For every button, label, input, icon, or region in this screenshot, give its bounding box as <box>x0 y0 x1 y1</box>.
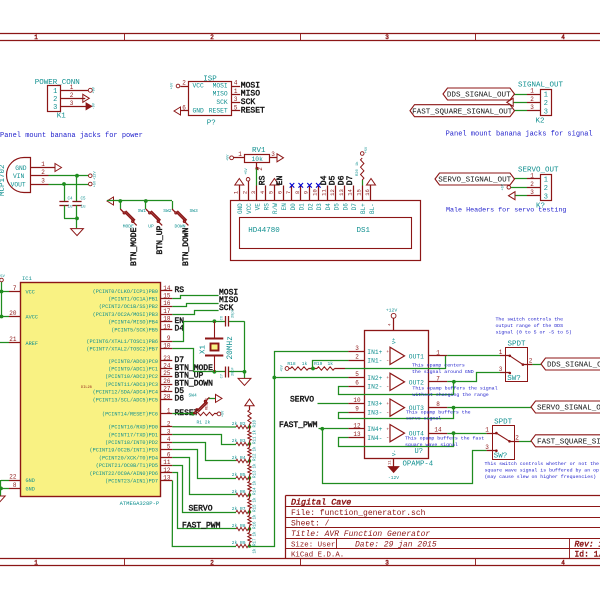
svg-text:This opamp buffers the fast: This opamp buffers the fast <box>405 436 484 442</box>
svg-text:13: 13 <box>353 431 361 438</box>
svg-text:R18: R18 <box>287 361 296 367</box>
svg-text:+5V: +5V <box>245 167 249 174</box>
svg-text:24: 24 <box>163 363 171 370</box>
svg-text:(PCINT8/ADC0)PC0: (PCINT8/ADC0)PC0 <box>108 359 158 365</box>
svg-text:Rev: 1: Rev: 1 <box>575 540 600 549</box>
svg-text:BTN_DOWN: BTN_DOWN <box>182 227 191 266</box>
svg-text:26: 26 <box>163 378 171 385</box>
svg-text:C7: C7 <box>221 374 225 378</box>
svg-text:1: 1 <box>34 559 38 566</box>
svg-text:V-: V- <box>392 450 398 456</box>
svg-text:1u: 1u <box>68 206 74 210</box>
svg-text:VE: VE <box>255 203 262 211</box>
svg-text:3: 3 <box>167 428 171 435</box>
svg-text:4: 4 <box>167 436 171 443</box>
svg-text:8: 8 <box>294 191 301 194</box>
svg-text:14: 14 <box>347 189 354 196</box>
svg-text:2: 2 <box>530 181 534 188</box>
svg-text:D4: D4 <box>325 203 332 211</box>
svg-text:15: 15 <box>355 189 362 196</box>
svg-text:D7: D7 <box>351 203 358 211</box>
svg-text:SPDT: SPDT <box>507 340 526 348</box>
svg-text:(PCINT11/ADC3)PC3: (PCINT11/ADC3)PC3 <box>105 382 158 388</box>
svg-text:(PCINT19/OC2B/INT1)PD3: (PCINT19/OC2B/INT1)PD3 <box>90 448 159 454</box>
svg-text:File: function_generator.sch: File: function_generator.sch <box>291 509 426 518</box>
svg-text:GND: GND <box>15 165 27 172</box>
svg-text:MISO: MISO <box>213 91 228 98</box>
svg-text:2k R5: 2k R5 <box>232 472 246 478</box>
svg-text:VIN: VIN <box>13 173 25 180</box>
svg-text:+5V: +5V <box>222 410 226 417</box>
svg-text:1: 1 <box>544 177 548 185</box>
svg-text:19: 19 <box>163 323 171 330</box>
svg-text:3: 3 <box>250 191 257 194</box>
svg-text:UP: UP <box>148 224 154 230</box>
svg-text:(PCINT0/CLKO/ICP1)PB0: (PCINT0/CLKO/ICP1)PB0 <box>93 289 158 295</box>
svg-text:SW?: SW? <box>507 375 521 383</box>
svg-text:1: 1 <box>530 88 534 95</box>
svg-text:C5: C5 <box>81 198 87 202</box>
svg-text:(PCINT14/RESET)PC6: (PCINT14/RESET)PC6 <box>102 412 158 418</box>
svg-text:27: 27 <box>163 386 171 393</box>
svg-text:2k R4: 2k R4 <box>232 455 246 461</box>
svg-text:20: 20 <box>9 310 17 317</box>
svg-text:1k: 1k <box>302 361 308 367</box>
svg-text:-9V: -9V <box>93 102 97 109</box>
svg-text:2: 2 <box>53 96 57 104</box>
svg-text:U?: U? <box>415 448 423 456</box>
svg-text:(PCINT7/XTAL2/TOSC2)PB7: (PCINT7/XTAL2/TOSC2)PB7 <box>86 347 158 353</box>
svg-text:output range of the DDS: output range of the DDS <box>496 323 564 329</box>
svg-text:2k R8: 2k R8 <box>232 523 246 529</box>
svg-text:1: 1 <box>436 349 440 356</box>
svg-text:4: 4 <box>389 323 393 326</box>
svg-text:5: 5 <box>355 371 359 378</box>
svg-text:FAST_SQUARE_SIGNAL_OUT: FAST_SQUARE_SIGNAL_OUT <box>412 108 513 116</box>
svg-text:1k R16: 1k R16 <box>252 521 257 537</box>
svg-text:1k R15: 1k R15 <box>252 504 257 520</box>
svg-text:RV1: RV1 <box>252 147 266 155</box>
svg-text:2k R2: 2k R2 <box>232 421 246 427</box>
svg-text:3: 3 <box>271 151 275 158</box>
svg-text:2: 2 <box>70 92 74 99</box>
svg-text:-12V: -12V <box>388 475 399 481</box>
svg-text:BL+: BL+ <box>360 203 367 214</box>
svg-text:IN4+: IN4+ <box>367 426 382 433</box>
svg-text:21: 21 <box>9 336 17 343</box>
svg-text:9: 9 <box>355 406 359 413</box>
svg-text:7: 7 <box>436 375 440 382</box>
svg-text:+5V: +5V <box>93 180 97 187</box>
svg-text:SW1: SW1 <box>138 208 147 214</box>
svg-text:Title: AVR Function Generator: Title: AVR Function Generator <box>291 530 430 539</box>
svg-text:BL-: BL- <box>369 203 376 214</box>
svg-text:3: 3 <box>499 366 503 373</box>
svg-text:D6: D6 <box>175 395 185 404</box>
svg-text:7: 7 <box>13 285 17 292</box>
svg-text:(PCINT2/OC1B/SS)PB2: (PCINT2/OC1B/SS)PB2 <box>99 304 158 310</box>
svg-text:Id: 1/1: Id: 1/1 <box>575 551 600 560</box>
svg-text:C6: C6 <box>221 316 225 320</box>
svg-text:(PCINT21/OC0B/T1)PD5: (PCINT21/OC0B/T1)PD5 <box>96 463 158 469</box>
svg-text:VCC: VCC <box>26 290 35 296</box>
svg-text:SIGNAL_OUT: SIGNAL_OUT <box>518 82 564 90</box>
svg-text:14: 14 <box>163 285 171 292</box>
svg-text:3: 3 <box>530 104 534 111</box>
svg-text:IN4-: IN4- <box>367 435 382 442</box>
svg-text:R/W: R/W <box>272 203 279 214</box>
svg-text:1k: 1k <box>328 361 334 367</box>
svg-text:1k R12: 1k R12 <box>252 453 257 469</box>
svg-text:-: - <box>386 383 389 390</box>
svg-text:17: 17 <box>163 308 171 315</box>
svg-text:9: 9 <box>303 191 310 194</box>
svg-text:SPDT: SPDT <box>494 418 513 426</box>
svg-text:RESET: RESET <box>241 106 265 115</box>
svg-text:1k R13: 1k R13 <box>252 470 257 486</box>
svg-text:3: 3 <box>41 178 45 185</box>
svg-text:16: 16 <box>163 300 171 307</box>
svg-text:RS: RS <box>175 286 185 295</box>
svg-text:+5V: +5V <box>281 364 285 371</box>
svg-text:OPAMP-4: OPAMP-4 <box>403 460 434 468</box>
svg-text:FAST_PWM: FAST_PWM <box>279 421 318 430</box>
svg-text:+12V: +12V <box>93 171 97 180</box>
svg-text:OUT2: OUT2 <box>409 379 424 386</box>
svg-text:2: 2 <box>355 354 359 361</box>
svg-text:This opamp centers: This opamp centers <box>412 362 465 368</box>
svg-text:3: 3 <box>53 104 57 112</box>
svg-text:IN2+: IN2+ <box>367 375 382 382</box>
svg-text:-: - <box>386 434 389 441</box>
svg-text:10: 10 <box>312 189 319 196</box>
svg-text:IN2-: IN2- <box>367 384 382 391</box>
svg-text:7: 7 <box>285 191 292 194</box>
svg-text:RESET: RESET <box>209 107 228 114</box>
svg-text:+: + <box>386 376 389 381</box>
svg-text:5: 5 <box>167 444 171 451</box>
svg-text:R20: R20 <box>356 168 360 176</box>
svg-text:2: 2 <box>544 100 548 108</box>
svg-text:3: 3 <box>485 444 489 451</box>
svg-text:BTN_UP: BTN_UP <box>156 225 165 254</box>
svg-text:2: 2 <box>210 559 214 566</box>
svg-text:2k R9: 2k R9 <box>232 540 246 546</box>
svg-text:8: 8 <box>13 482 17 489</box>
svg-text:IC1: IC1 <box>22 275 33 282</box>
svg-text:1: 1 <box>485 426 489 433</box>
svg-text:6: 6 <box>182 104 186 111</box>
svg-text:16: 16 <box>364 189 371 196</box>
svg-text:1k R17: 1k R17 <box>252 538 257 554</box>
svg-text:11: 11 <box>163 459 171 466</box>
svg-text:VCC: VCC <box>193 82 205 89</box>
svg-text:D6: D6 <box>342 203 349 211</box>
svg-text:1u: 1u <box>81 206 87 210</box>
svg-text:20pF: 20pF <box>232 309 236 318</box>
svg-text:28: 28 <box>163 393 171 400</box>
svg-text:4: 4 <box>561 34 565 41</box>
svg-text:1: 1 <box>238 151 242 158</box>
svg-text:D6: D6 <box>337 175 346 185</box>
svg-text:-: - <box>386 409 389 416</box>
svg-text:4: 4 <box>561 559 565 566</box>
svg-text:IN1+: IN1+ <box>367 349 382 356</box>
svg-text:servo signal: servo signal <box>406 416 441 422</box>
svg-text:(PCINT9/ADC1)PC1: (PCINT9/ADC1)PC1 <box>108 367 158 373</box>
svg-text:RS: RS <box>258 175 267 185</box>
svg-text:The switch controls the: The switch controls the <box>496 316 564 322</box>
svg-text:D5: D5 <box>334 203 341 211</box>
svg-text:11: 11 <box>389 460 393 465</box>
svg-text:(PCINT3/OC2A/MOSI)PB3: (PCINT3/OC2A/MOSI)PB3 <box>93 312 158 318</box>
svg-text:SERVO: SERVO <box>290 396 314 405</box>
svg-text:Male Headers for servo testing: Male Headers for servo testing <box>446 207 566 215</box>
svg-text:MCP1702: MCP1702 <box>0 164 7 196</box>
svg-text:This opamp buffers the: This opamp buffers the <box>406 409 471 415</box>
svg-text:D4: D4 <box>320 175 329 185</box>
svg-text:12: 12 <box>329 189 336 196</box>
svg-text:OUT1: OUT1 <box>409 353 424 360</box>
svg-text:FAST_SQUARE_SIGNAL_OUT: FAST_SQUARE_SIGNAL_OUT <box>537 439 600 447</box>
svg-text:14: 14 <box>434 427 442 434</box>
svg-text:V+: V+ <box>392 338 398 344</box>
svg-text:11: 11 <box>320 189 327 196</box>
svg-text:(PCINT1/OC1A)PB1: (PCINT1/OC1A)PB1 <box>108 297 158 303</box>
svg-text:BTN_MODE: BTN_MODE <box>130 227 139 266</box>
svg-text:AVCC: AVCC <box>26 315 38 321</box>
svg-text:MOSI: MOSI <box>213 82 228 89</box>
svg-text:3: 3 <box>234 96 238 103</box>
svg-text:(PCINT13/SCL/ADC5)PC5: (PCINT13/SCL/ADC5)PC5 <box>93 397 158 403</box>
svg-text:2k R3: 2k R3 <box>232 438 246 444</box>
svg-text:DIL28: DIL28 <box>81 386 92 390</box>
svg-text:(PCINT5/SCK)PB5: (PCINT5/SCK)PB5 <box>111 327 158 333</box>
svg-text:+5V: +5V <box>0 275 6 279</box>
svg-text:D0: D0 <box>290 203 297 211</box>
svg-text:2k R6: 2k R6 <box>232 489 246 495</box>
svg-text:SW4: SW4 <box>189 393 198 399</box>
svg-text:2: 2 <box>544 185 548 193</box>
svg-text:This opamp buffers the signal: This opamp buffers the signal <box>412 385 497 391</box>
svg-text:10: 10 <box>163 343 171 350</box>
svg-text:Size: User: Size: User <box>291 541 335 549</box>
svg-text:SERVO_OUT: SERVO_OUT <box>518 167 559 175</box>
svg-text:KiCad E.D.A.: KiCad E.D.A. <box>291 552 344 560</box>
svg-text:+: + <box>386 402 389 407</box>
svg-text:Panel mount banana jacks for s: Panel mount banana jacks for signal <box>446 131 593 139</box>
svg-text:Date: 29 jan 2015: Date: 29 jan 2015 <box>355 540 437 549</box>
svg-text:1k R14: 1k R14 <box>252 487 257 503</box>
svg-text:(PCINT10/ADC2)PC2: (PCINT10/ADC2)PC2 <box>105 374 158 380</box>
svg-text:SERVO_SIGNAL_OUT: SERVO_SIGNAL_OUT <box>438 177 511 185</box>
svg-text:1k: 1k <box>355 161 360 166</box>
svg-text:(PCINT18/INT0)PD2: (PCINT18/INT0)PD2 <box>105 440 158 446</box>
svg-text:1: 1 <box>234 88 238 95</box>
svg-text:DDS_SIGNAL_OUT: DDS_SIGNAL_OUT <box>547 362 600 370</box>
svg-text:-: - <box>386 357 389 364</box>
svg-text:+5V: +5V <box>171 82 175 89</box>
svg-text:IN3+: IN3+ <box>367 401 382 408</box>
svg-text:(PCINT12/SDA/ADC4)PC4: (PCINT12/SDA/ADC4)PC4 <box>93 390 158 396</box>
svg-text:13: 13 <box>338 189 345 196</box>
svg-text:3: 3 <box>385 559 389 566</box>
svg-text:SW3: SW3 <box>190 208 199 214</box>
svg-text:1: 1 <box>53 88 57 96</box>
svg-text:SERVO_SIGNAL_OUT: SERVO_SIGNAL_OUT <box>537 405 600 413</box>
svg-text:HD44780: HD44780 <box>248 227 280 235</box>
svg-text:5: 5 <box>268 191 275 194</box>
svg-text:23: 23 <box>163 355 171 362</box>
svg-text:+: + <box>386 428 389 433</box>
svg-text:6: 6 <box>355 380 359 387</box>
svg-text:This switch controls whether o: This switch controls whether or not the … <box>485 461 600 467</box>
svg-text:2: 2 <box>167 421 171 428</box>
svg-text:8: 8 <box>436 401 440 408</box>
svg-text:+9V: +9V <box>93 86 97 93</box>
svg-text:(PCINT22/OC0A/AIN0)PD6: (PCINT22/OC0A/AIN0)PD6 <box>90 471 159 477</box>
svg-text:3: 3 <box>385 34 389 41</box>
svg-text:1: 1 <box>544 92 548 100</box>
svg-text:4: 4 <box>259 190 266 194</box>
svg-text:9: 9 <box>167 335 171 342</box>
svg-text:1k R11: 1k R11 <box>252 436 257 452</box>
svg-text:D5: D5 <box>329 175 338 185</box>
svg-text:square wave signal: square wave signal <box>405 442 458 448</box>
svg-text:+12V: +12V <box>386 308 398 314</box>
svg-text:1: 1 <box>34 34 38 41</box>
svg-text:SW2: SW2 <box>163 208 172 214</box>
svg-text:K1: K1 <box>57 112 67 120</box>
svg-text:5: 5 <box>234 105 238 112</box>
svg-text:FAST_PWM: FAST_PWM <box>182 521 221 530</box>
svg-text:GND: GND <box>26 478 35 484</box>
svg-text:SERVO: SERVO <box>189 504 213 513</box>
svg-text:SW?: SW? <box>494 453 508 461</box>
svg-text:2: 2 <box>515 434 519 441</box>
svg-text:GND: GND <box>193 107 205 114</box>
svg-text:P?: P? <box>207 120 216 128</box>
svg-text:(may cause slew on higher freq: (may cause slew on higher frequencies) <box>485 474 597 480</box>
svg-text:X1: X1 <box>200 344 208 354</box>
svg-text:6: 6 <box>167 451 171 458</box>
svg-text:1: 1 <box>530 173 534 180</box>
svg-text:DDS_SIGNAL_OUT: DDS_SIGNAL_OUT <box>447 92 511 100</box>
svg-text:3: 3 <box>70 100 74 107</box>
svg-text:D3: D3 <box>316 203 323 211</box>
svg-text:IN3-: IN3- <box>367 409 382 416</box>
svg-text:22: 22 <box>9 474 17 481</box>
svg-text:15: 15 <box>163 293 171 300</box>
svg-text:4: 4 <box>234 80 238 87</box>
svg-text:D7: D7 <box>346 175 355 185</box>
svg-text:D1: D1 <box>299 203 306 211</box>
svg-text:GND: GND <box>237 203 244 214</box>
svg-text:AREF: AREF <box>26 341 38 347</box>
svg-text:C4: C4 <box>68 198 74 202</box>
svg-text:+5V: +5V <box>365 146 369 153</box>
svg-text:RESET1: RESET1 <box>206 398 210 410</box>
svg-text:1: 1 <box>41 161 45 168</box>
svg-text:VOUT: VOUT <box>11 182 26 189</box>
svg-text:2k R7: 2k R7 <box>232 506 246 512</box>
svg-text:2: 2 <box>530 96 534 103</box>
svg-text:12: 12 <box>353 422 361 429</box>
svg-text:Digital Cave: Digital Cave <box>291 498 351 508</box>
svg-text:3: 3 <box>544 193 548 201</box>
svg-text:6: 6 <box>276 191 283 194</box>
svg-text:square wave signal is buffered: square wave signal is buffered by an op … <box>485 468 600 474</box>
svg-text:VCC: VCC <box>246 203 253 214</box>
svg-text:(PCINT20/XCK/T0)PD4: (PCINT20/XCK/T0)PD4 <box>99 455 158 461</box>
svg-text:25: 25 <box>163 370 171 377</box>
svg-text:Sheet: /: Sheet: / <box>291 519 330 528</box>
svg-text:R19: R19 <box>314 361 323 367</box>
svg-text:(PCINT16/RXD)PD0: (PCINT16/RXD)PD0 <box>108 425 158 431</box>
svg-text:13: 13 <box>163 475 171 482</box>
svg-text:20MHz: 20MHz <box>227 336 235 360</box>
svg-text:D2: D2 <box>307 203 314 211</box>
svg-text:3: 3 <box>355 345 359 352</box>
svg-text:1k R10: 1k R10 <box>252 419 257 435</box>
svg-text:IN1-: IN1- <box>367 358 382 365</box>
svg-text:1: 1 <box>167 408 171 415</box>
svg-text:12: 12 <box>163 467 171 474</box>
svg-text:ATMEGA328P-P: ATMEGA328P-P <box>120 500 160 507</box>
svg-text:2: 2 <box>41 169 45 176</box>
svg-text:EN: EN <box>281 203 288 211</box>
svg-text:1: 1 <box>499 349 503 356</box>
svg-text:10: 10 <box>353 397 361 404</box>
svg-text:(PCINT23/AIN1)PD7: (PCINT23/AIN1)PD7 <box>105 479 158 485</box>
svg-text:the signal around GND: the signal around GND <box>412 369 474 375</box>
svg-text:GND: GND <box>26 487 35 493</box>
svg-text:RS: RS <box>263 203 270 211</box>
svg-text:EN: EN <box>276 175 285 185</box>
svg-text:18: 18 <box>163 316 171 323</box>
svg-text:10k: 10k <box>252 156 264 163</box>
svg-text:1: 1 <box>70 84 74 91</box>
svg-text:2: 2 <box>241 191 248 194</box>
svg-text:+5V: +5V <box>226 154 230 161</box>
svg-text:K2: K2 <box>536 117 545 125</box>
svg-text:1: 1 <box>233 190 240 194</box>
svg-text:SCK: SCK <box>216 99 228 106</box>
svg-text:(PCINT6/XTAL1/TOSC1)PB6: (PCINT6/XTAL1/TOSC1)PB6 <box>86 339 158 345</box>
svg-text:+: + <box>386 350 389 355</box>
svg-text:Panel mount banana jacks for p: Panel mount banana jacks for power <box>0 132 143 140</box>
svg-text:D4: D4 <box>175 325 185 334</box>
svg-text:(PCINT17/TXD)PD1: (PCINT17/TXD)PD1 <box>108 432 158 438</box>
svg-text:(PCINT4/MISO)PB4: (PCINT4/MISO)PB4 <box>108 320 158 326</box>
svg-text:R1 2k: R1 2k <box>197 420 211 426</box>
svg-text:2: 2 <box>529 358 533 365</box>
svg-text:DS1: DS1 <box>357 227 371 235</box>
svg-text:+5V: +5V <box>502 183 506 190</box>
svg-text:2: 2 <box>182 79 186 86</box>
svg-text:2: 2 <box>210 34 214 41</box>
svg-text:3: 3 <box>530 189 534 196</box>
svg-text:20pF: 20pF <box>232 367 236 376</box>
svg-text:signal (0 to 5 or -5 to 5): signal (0 to 5 or -5 to 5) <box>496 330 572 336</box>
svg-text:without changing the range: without changing the range <box>412 392 488 398</box>
svg-text:3: 3 <box>544 108 548 116</box>
